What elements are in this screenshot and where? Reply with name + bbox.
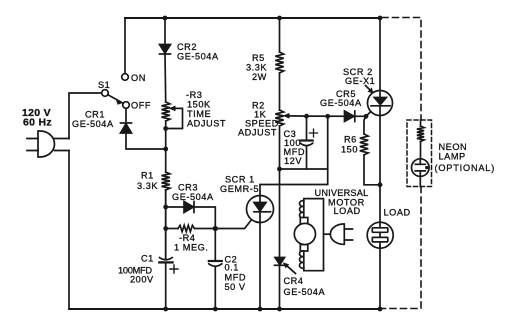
node CR1 branch junction xyxy=(163,147,168,152)
svg-text:1 MEG.: 1 MEG. xyxy=(174,243,208,253)
node junction top bus / SCR2 branch xyxy=(378,16,383,21)
svg-text:NEON: NEON xyxy=(439,142,468,152)
AC plug P1 (120V line) xyxy=(27,131,69,157)
wire plug upper conductor to switch xyxy=(69,93,102,139)
svg-text:CR4: CR4 xyxy=(284,276,304,286)
dashed box around neon lamp xyxy=(407,120,432,187)
diode CR3 GE-504A xyxy=(166,202,216,229)
svg-text:ADJUST: ADJUST xyxy=(187,119,226,129)
SCR2 GE-X1 xyxy=(368,91,393,116)
svg-text:GE-504A: GE-504A xyxy=(177,52,219,62)
svg-text:LOAD: LOAD xyxy=(384,208,411,218)
svg-text:GE-X1: GE-X1 xyxy=(345,76,375,86)
svg-text:GE-504A: GE-504A xyxy=(284,287,326,297)
node CR3 branch junction xyxy=(163,205,168,210)
svg-text:TIME: TIME xyxy=(187,109,211,119)
svg-text:GE-504A: GE-504A xyxy=(72,119,114,129)
svg-text:150: 150 xyxy=(341,145,358,155)
wire ON branch vertical xyxy=(124,18,126,74)
svg-text:GE-504A: GE-504A xyxy=(320,98,362,108)
node C2 bottom xyxy=(213,307,218,312)
svg-text:MFD: MFD xyxy=(225,273,247,283)
svg-text:R1: R1 xyxy=(141,171,154,181)
wire CR2 to R3 xyxy=(164,54,167,102)
resistor R4 1 MEG xyxy=(166,225,216,231)
wire SCR1 anode up to y184.5 row xyxy=(260,116,328,195)
svg-text:LAMP: LAMP xyxy=(439,152,466,162)
svg-text:ON: ON xyxy=(131,73,146,83)
svg-text:CR2: CR2 xyxy=(177,42,197,52)
node junction top bus / R5 branch xyxy=(277,16,282,21)
node C3 bottom row junction at x279 xyxy=(277,167,282,172)
svg-text:-R4: -R4 xyxy=(179,233,195,243)
resistor R2 1K potentiometer xyxy=(275,110,289,126)
wire LOAD to bottom bus xyxy=(379,246,381,309)
node R6 branch xyxy=(364,114,369,119)
wire R1 to CR3 node xyxy=(165,190,167,259)
wire C3 bottom row xyxy=(280,168,328,170)
universal motor load assembly xyxy=(294,199,352,271)
neon lamp xyxy=(412,159,430,187)
wire R5 to R2 xyxy=(279,73,281,110)
wire CR2 branch from top bus xyxy=(164,18,166,45)
motor plug xyxy=(324,233,331,235)
diode CR2 GE-504A xyxy=(160,45,171,55)
svg-text:R6: R6 xyxy=(344,135,357,145)
svg-text:0.1: 0.1 xyxy=(225,263,239,273)
resistor (neon series) xyxy=(417,120,424,159)
resistor R1 3.3K xyxy=(162,172,170,190)
svg-text:C1: C1 xyxy=(141,254,154,264)
node C3 branch xyxy=(304,114,309,119)
svg-text:R5: R5 xyxy=(252,53,265,63)
svg-text:3.3K: 3.3K xyxy=(246,63,267,73)
svg-text:CR1: CR1 xyxy=(85,110,105,120)
svg-text:GEMR-5: GEMR-5 xyxy=(220,184,259,194)
wire CR1 to R3 bottom junction xyxy=(126,133,166,149)
svg-text:(OPTIONAL): (OPTIONAL) xyxy=(435,163,496,173)
svg-text:60 Hz: 60 Hz xyxy=(23,117,52,129)
resistor R5 3.3K 2W xyxy=(275,52,283,73)
svg-text:-R3: -R3 xyxy=(186,90,202,100)
wire wiper row to SCR2 gate xyxy=(289,115,366,117)
node junction top bus / CR2 branch xyxy=(163,16,168,21)
node R6 bottom junction xyxy=(378,182,383,187)
node load bottom / dashed corner xyxy=(378,307,383,312)
node SCR1 cathode bottom xyxy=(258,307,263,312)
capacitor C2 0.1 MFD 50V xyxy=(209,229,222,310)
svg-text:2W: 2W xyxy=(252,72,267,82)
svg-text:ADJUST: ADJUST xyxy=(238,128,277,138)
svg-text:SCR 1: SCR 1 xyxy=(225,175,255,185)
wire top bus xyxy=(125,17,380,19)
node C1 bottom xyxy=(163,307,168,312)
node R3 bottom / wiper junction xyxy=(163,126,168,131)
leader arrow to CR4 xyxy=(283,262,296,273)
diode CR4 GE-504A xyxy=(275,258,286,266)
svg-text:200V: 200V xyxy=(130,275,154,285)
wire R3 down xyxy=(165,121,167,172)
node CR4 bottom xyxy=(277,307,282,312)
bottom bus xyxy=(69,308,380,310)
svg-text:3.3K: 3.3K xyxy=(137,181,158,191)
capacitor C3 100MFD 12V xyxy=(300,116,317,169)
svg-text:12V: 12V xyxy=(284,156,302,166)
svg-text:CR3: CR3 xyxy=(178,183,198,193)
dashed optional neon branch xyxy=(382,18,421,309)
resistor R3 150K potentiometer xyxy=(162,102,183,129)
wire R5 branch from top bus xyxy=(279,18,281,52)
wire gate line to SCR1 xyxy=(215,220,251,229)
svg-text:S1: S1 xyxy=(98,80,110,90)
svg-text:150K: 150K xyxy=(187,100,211,110)
svg-text:OFF: OFF xyxy=(131,101,151,111)
SCR1 GEMR-5 xyxy=(247,196,274,223)
motor armature circle xyxy=(294,223,315,244)
svg-text:LOAD: LOAD xyxy=(334,206,361,216)
svg-text:50 V: 50 V xyxy=(225,282,246,292)
wire SCR2 cathode down xyxy=(379,115,381,222)
svg-text:GE-504A: GE-504A xyxy=(172,192,214,202)
node R4 / CR3 / C2 / gate junction xyxy=(213,226,218,231)
wire SCR1 cathode to bottom bus xyxy=(259,223,261,310)
node R4 branch junction xyxy=(163,226,168,231)
wire R2 down to CR4 node xyxy=(279,126,281,309)
diode CR1 GE-504A xyxy=(121,123,132,133)
wire SCR2 anode from top bus xyxy=(379,18,381,91)
wire OFF terminal down to CR1 xyxy=(125,108,127,123)
resistor R6 150 xyxy=(360,116,380,185)
capacitor C1 100MFD 200V xyxy=(159,190,178,309)
wire plug lower conductor down to bottom bus xyxy=(68,151,70,310)
switch S1 xyxy=(102,74,130,109)
LOAD receptacle xyxy=(367,222,393,248)
diode CR5 GE-504A xyxy=(345,111,355,122)
wire gate diagonal into SCR2 xyxy=(366,111,372,117)
node x327 branch xyxy=(325,114,330,119)
svg-text:UNIVERSAL: UNIVERSAL xyxy=(315,188,369,198)
